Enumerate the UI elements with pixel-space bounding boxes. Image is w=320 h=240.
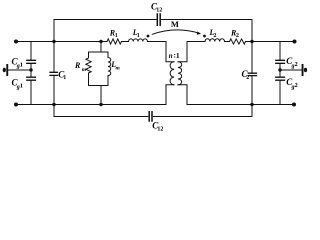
svg-text:1: 1	[137, 33, 140, 39]
shunt box bottom wire	[89, 85, 109, 87]
svg-text:2: 2	[236, 33, 239, 39]
capacitor Cg1 upper	[12, 56, 36, 69]
shunt box top wire	[89, 51, 109, 53]
node junction box-bottom	[99, 103, 102, 106]
wire top rail left segment	[54, 19, 156, 21]
svg-text:2: 2	[295, 61, 298, 68]
phasing dot secondary	[203, 35, 206, 38]
svg-text:m: m	[116, 66, 121, 72]
node input mid junction	[29, 68, 32, 71]
input tap wire	[9, 69, 32, 71]
terminal dot bottom-right	[292, 103, 296, 107]
input terminal symbol	[3, 64, 8, 76]
svg-text:1: 1	[20, 61, 23, 68]
wire left riser x=54	[53, 20, 55, 117]
output tap wire	[280, 69, 302, 71]
node junction riser-bottom left	[52, 103, 55, 106]
wire bottom line right	[187, 104, 294, 106]
terminal dot top-left	[14, 40, 18, 44]
inductor L1	[129, 28, 148, 41]
wire L2 to R2	[225, 41, 230, 43]
svg-text:n: n	[169, 52, 173, 60]
svg-text:12: 12	[156, 8, 162, 14]
capacitor C12 top	[151, 2, 162, 26]
capacitor Cg2 branch wire	[279, 42, 281, 105]
node junction box-main	[99, 40, 102, 43]
capacitor C12 bottom	[149, 112, 163, 133]
resistor R1	[107, 28, 122, 44]
node junction riser-bottom right	[250, 103, 253, 106]
shunt box top stub	[100, 42, 102, 53]
resistor R2	[230, 28, 246, 44]
svg-text:1: 1	[20, 82, 23, 89]
wire main line left	[16, 41, 107, 43]
label n:1	[169, 51, 180, 60]
transformer T1 secondary lead top	[178, 42, 187, 62]
output terminal symbol	[302, 64, 308, 76]
svg-text:2: 2	[295, 82, 298, 89]
wire R1 to L1	[122, 41, 129, 43]
wire bottom line left	[16, 104, 166, 106]
svg-text:1: 1	[176, 51, 180, 60]
transformer T1 primary lead top	[166, 42, 174, 62]
capacitor Cg2 upper	[276, 56, 298, 69]
resistor Rm	[74, 52, 91, 86]
wire right riser x=252	[251, 20, 253, 117]
wire transformer to L2	[187, 41, 205, 43]
transformer T1 primary winding	[170, 62, 174, 85]
node junction riser-main left	[52, 40, 55, 43]
wire top rail right segment	[162, 19, 252, 21]
inductor L2	[205, 28, 225, 41]
wire L1 to transformer	[148, 41, 167, 43]
capacitor Cg1 lower	[12, 77, 36, 90]
wire outer bottom rail left	[54, 116, 148, 118]
transformer T1 secondary lead bottom	[178, 85, 187, 105]
capacitor C2	[242, 69, 257, 81]
terminal dot bottom-left	[14, 103, 18, 107]
capacitor Cg2 lower	[276, 77, 298, 90]
inductor Lm	[108, 52, 121, 86]
mutual inductance arc M	[152, 19, 201, 34]
capacitor C1	[50, 69, 66, 81]
capacitor Cg1 branch wire	[30, 42, 32, 105]
svg-text:1: 1	[115, 33, 118, 39]
svg-text:2: 2	[214, 33, 217, 39]
transformer T1 secondary winding	[178, 62, 182, 85]
svg-text:1: 1	[63, 75, 66, 81]
phasing dot primary	[147, 35, 150, 38]
svg-text:m: m	[82, 67, 87, 73]
shunt box bottom stub	[100, 86, 102, 105]
transformer T1 primary lead bottom	[166, 85, 174, 105]
svg-text:12: 12	[157, 127, 163, 133]
svg-text:R: R	[74, 61, 81, 70]
svg-text:2: 2	[246, 75, 249, 81]
node junction riser-main right	[250, 40, 253, 43]
wire outer bottom rail right	[153, 116, 252, 118]
node output mid junction	[278, 68, 281, 71]
wire main line right end	[246, 41, 295, 43]
terminal dot top-right	[293, 40, 297, 44]
svg-text:M: M	[171, 19, 179, 29]
